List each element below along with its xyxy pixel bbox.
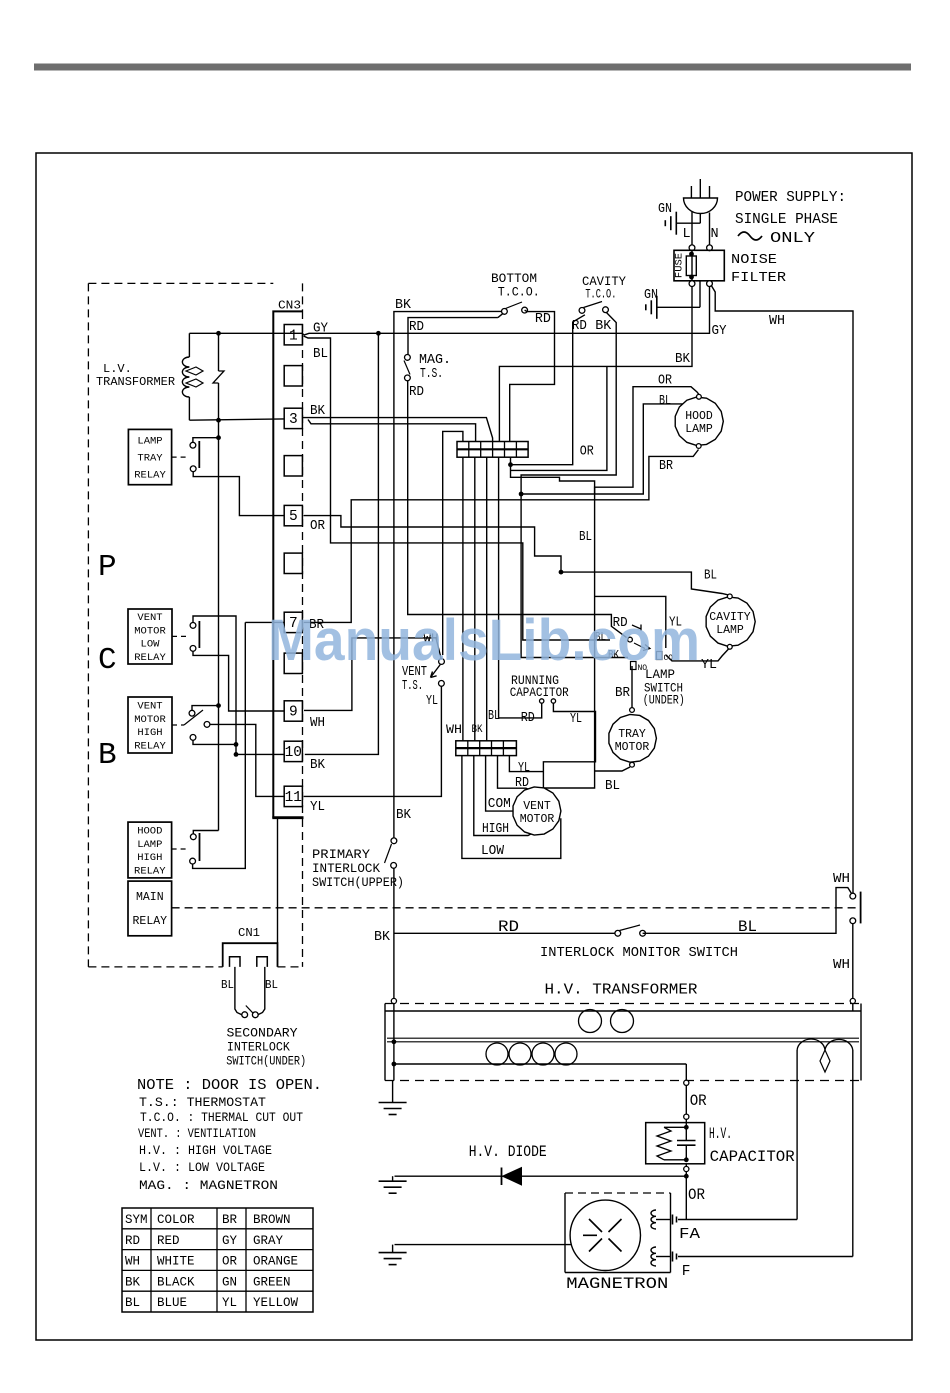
svg-text:T.C.O.: T.C.O. [585,287,616,302]
wire primary interlock to HV transformer [393,868,395,1001]
svg-text:GN: GN [658,202,672,217]
wire hood relay lower contact to pin 7 riser [193,622,246,868]
wire BK bottom TCO feed [394,311,505,838]
svg-text:OR: OR [222,1255,238,1269]
magnetron V1 box [565,1192,671,1194]
wire vent TS riser to block A [443,431,463,655]
svg-text:OR: OR [310,519,325,534]
svg-text:SINGLE PHASE: SINGLE PHASE [735,211,838,228]
svg-text:MOTOR: MOTOR [615,741,650,754]
diode D1 [395,1175,687,1177]
svg-text:9: 9 [289,705,298,721]
svg-text:MAGNETRON: MAGNETRON [566,1275,668,1293]
CN3 blank pin box [284,366,302,386]
wire magnetron cathode left [395,1244,572,1246]
lamp CAVITY LAMP [706,597,755,646]
svg-text:CN1: CN1 [238,926,260,940]
svg-text:H.V.: H.V. [709,1125,732,1143]
svg-text:RELAY: RELAY [134,652,166,664]
wire OR pin5 to hood lamp [304,516,562,573]
wire filament left leg [796,1063,798,1220]
svg-text:GN: GN [222,1275,237,1289]
svg-text:BR: BR [222,1213,238,1227]
wire YL block B cell5 [509,756,543,772]
ground GN at noise filter [656,296,658,319]
svg-text:GY: GY [222,1234,238,1248]
wire color legend table [122,1208,313,1312]
HV transformer primary winding [385,1010,861,1012]
svg-text:PRIMARY: PRIMARY [312,848,371,862]
HV transformer core lines [387,1037,859,1039]
svg-text:BLUE: BLUE [157,1296,187,1310]
wire F to filament right leg [678,1256,853,1258]
svg-text:GY: GY [313,322,328,337]
wire WH door switch to HV transformer [852,923,854,998]
svg-text:T.C.O. : THERMAL CUT OUT: T.C.O. : THERMAL CUT OUT [140,1110,303,1125]
svg-text:COM: COM [488,797,511,812]
wire vent low lower contact to pin 9 [193,651,284,711]
svg-text:L: L [683,227,691,242]
svg-text:YL: YL [570,712,582,727]
svg-text:GREEN: GREEN [253,1275,291,1289]
CN3 pin 3 [284,408,302,428]
svg-text:WH: WH [125,1255,140,1269]
svg-text:FUSE: FUSE [674,253,686,278]
terminal circles bottom of noise filter [689,281,695,287]
terminal circles L N top of noise filter [689,245,695,251]
wire RD to interlock monitor switch [394,932,615,934]
CN3 blank pin box [284,653,302,673]
wire BL right CN1 to secondary interlock [258,967,265,1015]
svg-text:MOTOR: MOTOR [134,714,166,726]
lamp HOOD LAMP [675,397,723,445]
capacitor C1 H.V. CAPACITOR [646,1123,705,1164]
svg-text:BL: BL [125,1296,140,1310]
svg-text:WH: WH [446,723,462,737]
relay K4 HOOD LAMP HIGH RELAY [128,822,172,878]
svg-text:YL: YL [310,800,325,815]
svg-text:ORANGE: ORANGE [253,1255,298,1269]
wire BR pin7 to hood lamp [304,450,699,623]
svg-text:RD: RD [409,385,424,400]
svg-text:VENT. : VENTILATION: VENT. : VENTILATION [138,1126,256,1141]
switch S1 primary interlock [391,838,397,844]
wire LOW block B to vent motor [462,756,561,859]
wire pin 10 from riser [236,753,284,755]
wire vent low upper contact to pin 10 riser [193,616,236,754]
svg-text:BL: BL [659,394,671,409]
svg-text:RELAY: RELAY [134,740,166,752]
svg-text:TRAY: TRAY [618,728,646,741]
svg-text:INTERLOCK: INTERLOCK [227,1039,290,1054]
wire COM block B to vent motor [486,756,513,812]
svg-text:MAG. : MAGNETRON: MAG. : MAGNETRON [139,1178,278,1193]
wire RD running cap to block B [499,710,542,718]
wire block A to block B cell1 [462,457,464,741]
svg-text:RD: RD [521,711,535,726]
svg-text:YL: YL [426,694,438,709]
svg-text:1: 1 [289,328,298,344]
wire YL running cap to vent motor [543,710,595,788]
svg-text:GRAY: GRAY [253,1234,284,1248]
svg-text:BK: BK [125,1275,141,1289]
svg-text:OR: OR [688,1186,705,1204]
wire BK branch to cell6 [511,366,607,470]
motor TRAY MOTOR [630,708,635,713]
wire WH pin 9 to vent TS [304,638,441,711]
svg-text:LAMP: LAMP [685,423,713,436]
svg-text:HIGH: HIGH [482,822,509,837]
svg-text:RD: RD [409,320,424,335]
svg-text:BK: BK [395,298,412,313]
svg-text:T.S.: T.S. [402,679,423,694]
wire BL monitor to door switch [643,888,852,934]
svg-text:T.S.: THERMOSTAT: T.S.: THERMOSTAT [139,1095,266,1110]
switch bottom T.C.O. [502,309,508,315]
top gray divider bar [34,64,911,71]
svg-text:LOW: LOW [141,639,161,651]
magnetron tube circle [570,1200,640,1270]
wire capacitor to FA node [685,1164,687,1167]
svg-text:TRANSFORMER: TRANSFORMER [96,375,175,389]
ground GN at plug [677,222,700,224]
wire cavity TCO left down [511,315,585,465]
vent motor low relay contacts [190,623,196,629]
wire vertical x=218.5 transformer to relays [218,420,220,830]
connector CN1 [223,943,278,967]
CN3 pin 5 [284,505,302,525]
ground magnetron [392,1245,394,1253]
svg-text:5: 5 [289,509,298,525]
wire YL branch to lamp switch [595,596,666,648]
svg-text:RED: RED [157,1234,180,1248]
svg-text:BL: BL [313,347,328,362]
wire BK pin 10 riser to GY [305,333,379,754]
wire RD mag TS down [408,381,627,638]
svg-text:MAIN: MAIN [136,891,164,904]
relay K5 MAIN RELAY [128,881,172,936]
svg-text:11: 11 [285,790,302,806]
wire pin 7 from riser [245,621,284,623]
svg-text:N: N [711,227,719,242]
svg-text:GY: GY [712,324,727,339]
svg-text:BL: BL [704,569,717,584]
svg-text:SECONDARY: SECONDARY [227,1025,298,1040]
svg-text:SWITCH(UPPER): SWITCH(UPPER) [312,876,404,890]
svg-text:BL: BL [221,979,234,992]
svg-text:HOOD: HOOD [685,410,713,423]
svg-text:ManualsLib.com: ManualsLib.com [268,608,700,673]
svg-text:WH: WH [310,716,325,731]
svg-text:POWER SUPPLY:: POWER SUPPLY: [735,189,846,206]
svg-text:BK: BK [472,724,483,736]
svg-text:T.C.O.: T.C.O. [498,285,540,300]
HV transformer secondary winding [394,1063,686,1065]
wire BL tray motor return [595,767,630,771]
switch cavity T.C.O. [579,308,585,314]
noise filter ground stub [699,281,701,308]
vent motor high relay contacts [189,710,195,716]
AC tilde symbol [738,232,762,240]
svg-text:HOOD: HOOD [137,826,162,838]
svg-text:L.V.: L.V. [103,362,132,376]
svg-text:OR: OR [690,1092,707,1110]
PCB dashed border left [87,283,89,967]
svg-text:H.V. TRANSFORMER: H.V. TRANSFORMER [545,982,698,999]
magnetron filament coils [651,1210,656,1229]
svg-text:CAPACITOR: CAPACITOR [510,685,569,700]
svg-text:H.V. DIODE: H.V. DIODE [469,1143,547,1161]
varistor across transformer [218,333,220,371]
svg-text:3: 3 [289,412,298,428]
CN3 pin 9 [284,701,302,721]
svg-text:BL: BL [265,979,278,992]
wire CN1 to CN3 base [277,818,279,943]
svg-text:LAMP: LAMP [716,624,744,637]
svg-text:BK: BK [595,319,612,334]
svg-text:SYM: SYM [125,1213,148,1227]
svg-text:BK: BK [310,758,326,773]
wire pin1 to transformer top [189,332,302,334]
svg-text:BL: BL [605,779,620,794]
terminal block CN2 [457,442,528,458]
wire GY: noise filter N to CN3 pin 1 [304,286,710,335]
svg-text:C: C [98,643,117,678]
svg-text:CAPACITOR: CAPACITOR [710,1148,795,1166]
svg-text:YL: YL [701,658,717,673]
wire lamp tray relay lower contact to pin 5 [193,471,284,515]
svg-text:LAMP: LAMP [137,436,162,448]
magnetron FA terminal [672,1215,674,1225]
wire pin3 second to block A [308,420,476,442]
HV transformer left terminal riser [393,1004,395,1081]
CN3 pin 1 [284,325,302,345]
wire BL to hood lamp [521,404,694,494]
PCB dashed border top [88,282,273,284]
CN3 pin 10 [284,741,302,761]
ground diode [392,1176,394,1181]
power plug P1 [684,198,718,213]
CN3 blank pin box [284,456,302,476]
svg-text:BR: BR [659,459,673,474]
svg-text:HIGH: HIGH [137,852,162,864]
svg-text:RD: RD [498,918,519,936]
svg-text:OR: OR [658,374,672,389]
svg-text:COLOR: COLOR [157,1213,195,1227]
ground HV transformer [392,1081,394,1103]
svg-text:NOISE: NOISE [731,252,777,268]
noise filter box [674,250,724,280]
svg-text:SWITCH(UNDER): SWITCH(UNDER) [226,1054,306,1069]
svg-text:YELLOW: YELLOW [253,1296,299,1310]
CN3 pin 7 [284,612,302,632]
wire vent high center contact to pin 11 [210,724,285,796]
wire WH: noise filter to right side [711,285,853,894]
wire YL cavity lamp to lamp switch [666,649,729,661]
wire vent high upper contact to x218 junction [192,706,219,711]
svg-text:BK: BK [675,352,691,367]
svg-text:WH: WH [769,314,785,329]
svg-text:BK: BK [374,930,391,945]
svg-text:RELAY: RELAY [133,915,168,928]
wire BL pin1 to cavity lamp [304,336,611,640]
switch WH door right [850,893,856,899]
switch VENT T.S. [439,659,445,665]
schematic border frame [36,153,912,1340]
svg-text:VENT: VENT [137,701,162,713]
wire secondary to HV capacitor [685,1064,687,1080]
magnetron F terminal [672,1252,674,1262]
svg-text:MAG.: MAG. [419,353,451,368]
wire filament right leg / WH [852,1063,854,1257]
wire vent high lower contact to pin10 riser [193,740,236,744]
svg-text:F: F [682,1264,691,1280]
wire block A to block B cell2 [474,457,476,741]
wire lamp tray relay upper contact to junction [193,438,219,443]
svg-text:HIGH: HIGH [137,727,162,739]
dashed wire main relay to door switch [172,907,858,909]
transformer T2 H.V. [391,998,396,1003]
switch MAG T.S. [405,355,411,361]
svg-text:WH: WH [833,872,850,887]
svg-text:LOW: LOW [481,844,505,859]
PCB dashed border right [302,283,304,311]
lamp tray relay contacts [190,442,196,448]
hood lamp relay contacts [190,834,196,840]
svg-text:RD: RD [125,1234,140,1248]
svg-text:WH: WH [833,958,850,973]
wire RD block B to vent motor [498,756,529,790]
wire YL vent TS to pin 11 [304,686,442,796]
svg-text:YL: YL [518,761,530,776]
relay K3 VENT MOTOR HIGH RELAY [128,697,172,753]
wire bottom TCO output to block A [510,310,555,441]
switch S2 secondary interlock [242,1012,248,1018]
motor VENT MOTOR [513,787,561,835]
svg-text:TRAY: TRAY [137,453,163,465]
svg-text:CN3: CN3 [278,299,301,313]
svg-text:MOTOR: MOTOR [520,813,555,826]
PCB dashed border bottom [88,966,222,968]
wire block A to block B cell4 [498,457,500,718]
svg-text:FA: FA [679,1227,700,1243]
svg-text:LAMP: LAMP [137,839,162,851]
svg-text:BK: BK [396,808,412,823]
wire HIGH block B to vent motor [474,756,531,836]
svg-text:RELAY: RELAY [134,865,166,877]
svg-text:BR: BR [615,686,630,701]
svg-text:BLACK: BLACK [157,1275,195,1289]
wire block A to block B cell3 [486,457,488,741]
svg-text:L.V. : LOW VOLTAGE: L.V. : LOW VOLTAGE [139,1160,265,1175]
svg-text:(UNDER): (UNDER) [643,693,685,708]
wire BL to cavity lamp [561,572,728,595]
svg-text:RELAY: RELAY [134,470,166,482]
wire BR lamp switch to tray motor [631,666,633,708]
svg-text:FILTER: FILTER [731,270,787,286]
wire cavity TCO right down [521,312,628,657]
svg-text:INTERLOCK MONITOR SWITCH: INTERLOCK MONITOR SWITCH [540,946,738,961]
svg-text:10: 10 [285,745,302,761]
svg-text:BK: BK [310,404,326,419]
CN3 pin 11 [284,786,302,806]
svg-text:VENT: VENT [137,612,162,624]
fuse F1 [686,256,696,276]
L.V. transformer T1 [188,333,190,357]
HV transformer filament winding [796,1050,798,1063]
switch interlock monitor [615,930,621,936]
relay K1 LAMP TRAY RELAY [128,429,171,484]
svg-text:YL: YL [222,1296,237,1310]
wire OR to hood lamp [595,387,699,494]
svg-text:BL: BL [738,918,757,936]
CN3 blank pin box [284,553,302,573]
svg-text:WHITE: WHITE [157,1255,195,1269]
svg-text:T.S.: T.S. [420,367,443,382]
svg-text:P: P [98,550,117,585]
svg-text:B: B [98,738,117,773]
wire block A cell6 staircase right [511,457,595,788]
wire BL left CN1 to secondary interlock [235,967,242,1015]
wire hood relay upper contact to x218 wire [193,831,218,835]
terminal block CN4 [456,741,517,756]
svg-text:BL: BL [579,530,592,545]
svg-text:MOTOR: MOTOR [134,625,166,637]
wire BK: fuse output down-left [499,286,692,441]
wire plug L to noise filter [691,212,693,246]
connector CN3 outline [273,311,302,818]
relay K2 VENT MOTOR LOW RELAY [128,609,172,664]
svg-text:BROWN: BROWN [253,1213,291,1227]
svg-text:CAVITY: CAVITY [709,611,751,624]
wire plug N to noise filter [709,213,711,246]
svg-text:VENT: VENT [523,800,551,813]
svg-text:NOTE : DOOR IS OPEN.: NOTE : DOOR IS OPEN. [137,1078,322,1094]
svg-text:OR: OR [580,445,594,460]
svg-text:RD: RD [535,312,551,327]
svg-text:ONLY: ONLY [770,230,815,247]
svg-text:INTERLOCK: INTERLOCK [312,862,380,876]
svg-text:BL: BL [488,709,500,724]
wire FA to filament left leg [678,1219,797,1221]
svg-text:H.V. : HIGH VOLTAGE: H.V. : HIGH VOLTAGE [139,1143,272,1158]
wire RD mag TS feed [408,318,498,355]
wire pin3 to transformer bottom [189,419,284,420]
wire pin3 BK to block A [302,418,492,442]
